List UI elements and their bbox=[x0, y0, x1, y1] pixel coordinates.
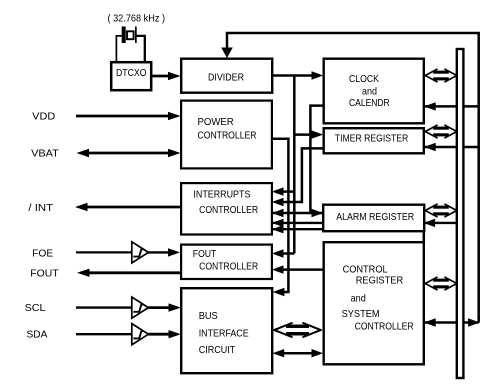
wire ALARM input net (runs under ALARM box from internal bus to INTERRUPTS) bbox=[272, 222, 457, 224]
bidir arrow ALARM to bus bbox=[425, 204, 457, 216]
wire divider tap vertical bbox=[293, 76, 296, 254]
crystal X1 right plate bbox=[135, 27, 137, 44]
wire ALARM bottom to CONTROL top stub bbox=[423, 231, 426, 243]
svg-text:FOE: FOE bbox=[32, 248, 53, 259]
wire DTCXO to DIVIDER bbox=[152, 75, 170, 78]
svg-text:VDD: VDD bbox=[32, 112, 55, 123]
box CONTROL REGISTER and SYSTEM CONTROLLER bbox=[324, 242, 424, 364]
wire DIVIDER to CLOCK bbox=[273, 74, 313, 77]
svg-text:REGISTER: REGISTER bbox=[356, 275, 404, 286]
wire FOUT output bbox=[87, 271, 180, 274]
arrowhead ALARM net into INTERRUPTS bbox=[272, 219, 284, 227]
wire internal bus to CLOCK bbox=[425, 105, 479, 108]
box DTCXO bbox=[111, 62, 151, 90]
bidir arrow CLOCK to bus bbox=[425, 69, 457, 81]
box DIVIDER bbox=[181, 59, 272, 93]
internal data bus (vertical double line) bbox=[457, 49, 464, 378]
svg-text:CONTROLLER: CONTROLLER bbox=[355, 321, 414, 332]
svg-text:DTCXO: DTCXO bbox=[116, 68, 147, 79]
wire VDD input bbox=[76, 115, 170, 118]
wire TIMER REGISTER output to INTERRUPTS bbox=[281, 148, 324, 202]
wire CLOCK output to INTERRUPTS and ALARM bbox=[272, 106, 324, 213]
bidir arrow BUS INTERFACE to CONTROL bbox=[274, 323, 320, 337]
svg-text:SCL: SCL bbox=[25, 303, 46, 314]
wire CONTROL to right net double arrow bbox=[425, 321, 479, 324]
crystal X1 loop left wire bbox=[116, 36, 122, 62]
wire CONTROL to FOUT CONTROLLER bbox=[281, 268, 324, 271]
svg-text:CONTROL: CONTROL bbox=[343, 264, 388, 275]
crystal X1 loop right wire bbox=[137, 36, 145, 62]
svg-text:SDA: SDA bbox=[27, 329, 48, 340]
box POWER CONTROLLER bbox=[181, 101, 272, 169]
svg-text:FOUT: FOUT bbox=[30, 268, 58, 279]
svg-text:FOUT: FOUT bbox=[193, 249, 217, 260]
svg-text:CONTROLLER: CONTROLLER bbox=[199, 262, 258, 273]
buffer FOE bbox=[132, 242, 149, 263]
svg-text:TIMER REGISTER: TIMER REGISTER bbox=[335, 133, 409, 144]
svg-text:and: and bbox=[351, 294, 366, 305]
wire SDA input bbox=[76, 333, 131, 335]
wire feedback top (system controller to divider) bbox=[227, 33, 479, 323]
wire BUS INTERFACE to CONTROL double arrow bbox=[281, 352, 315, 355]
arrowhead lower ALARM net into INTERRUPTS bbox=[272, 225, 284, 233]
crystal X1 body bbox=[127, 31, 134, 39]
svg-text:CIRCUIT: CIRCUIT bbox=[199, 345, 236, 356]
wire /INT output bbox=[85, 206, 181, 209]
box INTERRUPTS CONTROLLER bbox=[181, 183, 272, 234]
wire FOE input bbox=[76, 251, 131, 253]
svg-text:VBAT: VBAT bbox=[31, 149, 59, 160]
wire ALARM to INTERRUPTS lower net bbox=[272, 228, 324, 230]
wire divider tap to TIMER REGISTER bbox=[294, 133, 312, 136]
svg-text:CONTROLLER: CONTROLLER bbox=[199, 205, 258, 216]
box ALARM REGISTER bbox=[323, 205, 424, 232]
svg-text:INTERFACE: INTERFACE bbox=[199, 329, 249, 340]
bidir arrow TIMER to bus bbox=[425, 125, 457, 137]
box BUS INTERFACE CIRCUIT bbox=[181, 288, 272, 373]
arrowhead net into ALARM right edge bbox=[423, 219, 435, 227]
box CLOCK and CALENDR bbox=[324, 59, 424, 124]
svg-text:SYSTEM: SYSTEM bbox=[342, 309, 380, 320]
svg-text:CALENDR: CALENDR bbox=[349, 98, 390, 109]
svg-text:INTERRUPTS: INTERRUPTS bbox=[193, 189, 250, 200]
bidir arrow CONTROL to bus bbox=[425, 277, 457, 289]
svg-text:/ INT: / INT bbox=[28, 203, 53, 214]
box TIMER REGISTER bbox=[324, 128, 424, 153]
svg-text:BUS: BUS bbox=[199, 311, 218, 322]
svg-text:ALARM REGISTER: ALARM REGISTER bbox=[336, 212, 414, 223]
buffer SCL bbox=[132, 297, 149, 318]
wire divider tap to FOUT CONTROLLER bbox=[281, 252, 294, 255]
svg-text:DIVIDER: DIVIDER bbox=[208, 72, 244, 83]
wire SCL input bbox=[76, 306, 131, 308]
wire internal bus to TIMER REGISTER bbox=[425, 146, 479, 149]
wire divider tap to INTERRUPTS bbox=[281, 190, 294, 193]
box FOUT CONTROLLER bbox=[181, 245, 272, 279]
crystal X1 left plate bbox=[122, 27, 126, 44]
svg-text:CONTROLLER: CONTROLLER bbox=[198, 131, 257, 142]
wire POWER CONTROLLER output down to BUS INTERFACE bbox=[272, 139, 288, 292]
wire VBAT bidirectional bbox=[86, 152, 170, 155]
svg-text:CLOCK: CLOCK bbox=[349, 74, 379, 85]
svg-text:and: and bbox=[362, 86, 377, 97]
svg-text:POWER: POWER bbox=[198, 117, 234, 128]
svg-text:( 32.768 kHz ): ( 32.768 kHz ) bbox=[108, 14, 166, 25]
buffer SDA bbox=[132, 324, 149, 345]
